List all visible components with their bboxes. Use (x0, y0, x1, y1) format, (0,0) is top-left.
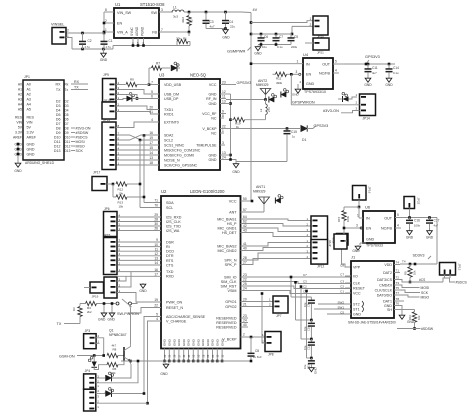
wire J1 gnd sd (400, 306, 402, 315)
svg-text:A4: A4 (27, 103, 31, 107)
svg-text:2: 2 (67, 28, 69, 32)
svg-text:RESERVED: RESERVED (216, 321, 237, 325)
svg-text:R8: R8 (113, 347, 117, 351)
svg-text:C1: C1 (109, 39, 113, 43)
svg-text:2: 2 (310, 23, 312, 27)
wire CS line (400, 278, 455, 282)
svg-text:RXD1: RXD1 (164, 112, 174, 116)
svg-text:D8: D8 (65, 126, 69, 130)
svg-text:MM9329: MM9329 (253, 190, 266, 194)
svg-text:GSM-ON: GSM-ON (59, 355, 75, 359)
svg-text:T3: T3 (396, 281, 400, 285)
svg-text:OUT: OUT (322, 63, 331, 67)
svg-text:71: 71 (154, 199, 158, 203)
svg-text:MIC_GND1: MIC_GND1 (217, 226, 236, 230)
connector JP17 (92, 171, 107, 191)
svg-text:I2S_CLK: I2S_CLK (166, 220, 181, 224)
svg-text:D4: D4 (56, 109, 61, 113)
svg-text:GND: GND (406, 236, 414, 240)
svg-text:23: 23 (222, 81, 226, 85)
regulator U4 TPS76933 (303, 52, 333, 94)
svg-text:3.3V: 3.3V (27, 131, 35, 135)
svg-text:MOSI: MOSI (76, 140, 85, 144)
resistor R11 490k (273, 72, 299, 85)
svg-text:D9: D9 (65, 131, 69, 135)
svg-text:TXD: TXD (166, 270, 174, 274)
resistor R19 (231, 118, 266, 130)
svg-text:#SDSW: #SDSW (421, 327, 434, 331)
svg-text:Tx: Tx (65, 88, 69, 92)
resistor R7 gps led (149, 61, 170, 84)
svg-text:RESERVED: RESERVED (216, 325, 237, 329)
capacitor C4 22u (222, 12, 235, 29)
ground below C6 (254, 46, 262, 56)
svg-text:GND: GND (168, 338, 172, 346)
svg-text:L2: L2 (259, 108, 263, 112)
svg-text:PGND: PGND (141, 26, 145, 36)
switch SW-PWRON (116, 299, 139, 316)
svg-text:NPNBC847: NPNBC847 (109, 333, 127, 337)
diode D10 gps ant (269, 94, 277, 103)
wire RF_IN to antenna (226, 98, 267, 101)
node VDD_USB junction (148, 83, 151, 86)
svg-text:JP6: JP6 (104, 207, 110, 211)
connector JP8 (265, 332, 281, 357)
wire RESET_N (128, 308, 161, 314)
node #SDCS (456, 281, 468, 285)
svg-text:ST1: ST1 (353, 307, 360, 311)
svg-text:12: 12 (222, 90, 226, 94)
svg-text:C8: C8 (340, 263, 344, 267)
svg-text:3: 3 (222, 141, 224, 145)
svg-text:TPS76933/10: TPS76933/10 (304, 90, 326, 94)
svg-text:GND: GND (364, 83, 372, 87)
connector JP18 sd (328, 234, 347, 249)
wire U3 gnd rail (226, 94, 236, 163)
svg-text:24: 24 (222, 156, 226, 160)
JP1 right net labels (65, 80, 91, 153)
svg-text:RXD: RXD (166, 275, 174, 279)
svg-text:8: 8 (222, 114, 224, 118)
svg-text:JP22: JP22 (417, 198, 421, 205)
svg-text:DAT2: DAT2 (383, 271, 392, 275)
wire JP19 to VPP (342, 245, 352, 267)
connector JP5 (104, 277, 121, 298)
svg-text:GND: GND (314, 367, 318, 375)
svg-text:JP10: JP10 (104, 99, 111, 103)
gps module U3 NEO-5Q (159, 73, 220, 171)
svg-text:GND: GND (216, 338, 220, 346)
svg-text:RESET_N: RESET_N (166, 306, 183, 310)
svg-text:MISO/CFG_COM1/NC: MISO/CFG_COM1/NC (164, 148, 201, 152)
wire JP8 pin2 riser (261, 292, 265, 343)
wire to JP20 (251, 21, 313, 36)
svg-text:D5: D5 (65, 113, 69, 117)
ground U6 (352, 243, 366, 253)
svg-text:MOSI: MOSI (421, 286, 430, 290)
svg-text:100n: 100n (414, 224, 421, 228)
svg-text:TX: TX (74, 85, 79, 89)
svg-text:MISO: MISO (421, 296, 430, 300)
svg-text:GPS3V3: GPS3V3 (237, 81, 252, 85)
svg-text:JP13: JP13 (458, 264, 462, 271)
svg-text:V_BCKP: V_BCKP (202, 127, 217, 131)
wire JP4 others (96, 360, 148, 404)
svg-text:VIN_A: VIN_A (117, 31, 128, 35)
svg-text:4u7: 4u7 (434, 224, 439, 228)
svg-text:I2S_TXD: I2S_TXD (166, 224, 181, 228)
regulator U6 TPS76933 (363, 205, 395, 248)
svg-text:D4: D4 (65, 108, 69, 112)
svg-text:D7: D7 (65, 122, 69, 126)
svg-text:13: 13 (222, 100, 226, 104)
svg-text:#SDCS: #SDCS (456, 281, 468, 285)
svg-text:I/O: I/O (353, 274, 358, 278)
svg-text:SCL2: SCL2 (164, 138, 173, 142)
wire cap bus bottom (258, 43, 291, 46)
svg-text:VIN_SW: VIN_SW (117, 11, 132, 15)
svg-text:0.1u: 0.1u (277, 45, 283, 49)
svg-text:5V: 5V (27, 126, 32, 130)
U3 left pins (149, 81, 200, 168)
ground below C11 (364, 77, 372, 87)
svg-text:U6: U6 (365, 205, 371, 210)
inductor L1 3u3 (159, 6, 241, 19)
node #3V3-ON gps (323, 109, 360, 113)
U3 right pins (196, 81, 232, 162)
ground U3 (232, 163, 240, 175)
antenna ANT1 MM9329 (253, 185, 270, 212)
svg-text:JP9: JP9 (103, 73, 109, 77)
node 4V (241, 8, 258, 13)
svg-text:1: 1 (222, 129, 224, 133)
ground below C17 (426, 230, 434, 240)
wire U3 VCC to GPS3V3 (232, 81, 251, 85)
connector JP19 vertical (332, 234, 349, 246)
svg-text:A3: A3 (18, 97, 22, 101)
svg-text:VINSEL: VINSEL (51, 23, 65, 27)
svg-text:C7: C7 (340, 272, 344, 276)
svg-text:D12: D12 (54, 145, 61, 149)
svg-text:RESERVED: RESERVED (216, 316, 237, 320)
svg-text:2k2: 2k2 (87, 310, 92, 314)
svg-text:9: 9 (222, 110, 224, 114)
svg-text:TX: TX (57, 322, 62, 326)
svg-text:GND: GND (206, 338, 210, 346)
svg-text:C1: C1 (340, 289, 344, 293)
svg-text:GND: GND (27, 143, 35, 147)
wire FB net (177, 31, 190, 36)
svg-text:CTS: CTS (166, 263, 174, 267)
svg-text:SIM_IO: SIM_IO (224, 275, 237, 279)
svg-text:T4: T4 (396, 261, 400, 265)
svg-text:GND: GND (98, 317, 106, 321)
svg-text:D2: D2 (65, 99, 69, 103)
svg-text:SCS1_NINC: SCS1_NINC (164, 143, 185, 147)
svg-text:2: 2 (105, 19, 107, 23)
svg-text:TIMEPULSE: TIMEPULSE (196, 143, 217, 147)
U2 reserved stubs (241, 318, 249, 327)
svg-text:D13: D13 (65, 149, 71, 153)
wire V_BCKP gps (232, 127, 300, 130)
svg-text:D13: D13 (54, 149, 61, 153)
resistor R9 sd pullup (404, 264, 417, 283)
svg-text:JP16: JP16 (368, 187, 372, 194)
capacitor C14 0.1u (386, 64, 400, 77)
svg-text:GND: GND (163, 338, 167, 346)
wire JP10 to uart (116, 106, 159, 114)
svg-text:490k: 490k (276, 81, 283, 85)
svg-text:7: 7 (161, 28, 163, 32)
svg-text:22u: 22u (230, 25, 235, 29)
svg-text:SH: SH (387, 308, 392, 312)
svg-text:GND: GND (292, 93, 300, 97)
svg-text:4.7u: 4.7u (85, 45, 91, 49)
svg-text:EN: EN (366, 227, 371, 231)
connector JP21 (305, 38, 329, 54)
svg-text:8: 8 (105, 8, 107, 12)
inductor L2 27n (259, 100, 271, 120)
svg-text:5: 5 (335, 60, 337, 64)
LED D5 usb (127, 93, 135, 102)
resistor R2 44k2 (181, 12, 194, 32)
svg-text:IN: IN (366, 217, 370, 221)
resistor R15 100k (337, 207, 359, 228)
wire DAT1 (400, 300, 404, 302)
svg-text:JP15: JP15 (103, 234, 110, 238)
wire ADC V_CHARGE (144, 317, 161, 405)
svg-text:DAT0/DO: DAT0/DO (377, 293, 393, 297)
node GPS3V3 top (365, 55, 380, 66)
svg-text:C2: C2 (88, 39, 92, 43)
svg-text:0.1u: 0.1u (393, 71, 399, 75)
svg-text:SIM_RST: SIM_RST (221, 284, 238, 288)
svg-text:GND: GND (172, 338, 176, 346)
svg-text:HS_P: HS_P (227, 222, 237, 226)
svg-text:C12: C12 (306, 345, 310, 350)
svg-text:NC/FB: NC/FB (319, 72, 331, 76)
svg-text:3: 3 (356, 224, 358, 228)
node GSM-ON (59, 354, 105, 358)
LED D5 gsm status (88, 354, 97, 367)
svg-text:D9: D9 (56, 131, 61, 135)
svg-text:JP12: JP12 (317, 265, 324, 269)
svg-text:RI: RI (166, 245, 170, 249)
svg-text:MIC_BIAS1: MIC_BIAS1 (217, 217, 236, 221)
svg-text:CLK/SCLK: CLK/SCLK (375, 288, 393, 292)
svg-text:AREF: AREF (13, 135, 22, 139)
svg-text:RES: RES (27, 116, 35, 120)
svg-text:V_BCKP: V_BCKP (222, 337, 237, 341)
wire SCK (400, 290, 429, 295)
LED D4 gps power (338, 92, 357, 102)
svg-text:SW1: SW1 (337, 305, 344, 309)
wire AGND bus (72, 44, 190, 50)
svg-text:D3: D3 (56, 104, 61, 108)
svg-text:10u: 10u (262, 45, 267, 49)
svg-text:JP11: JP11 (103, 118, 110, 122)
connector JP4 (84, 369, 100, 411)
svg-text:DCD: DCD (166, 250, 174, 254)
wire U3 pin stubs left i2c bundle (116, 135, 159, 165)
svg-text:T8: T8 (396, 297, 400, 301)
svg-text:VCC_RF: VCC_RF (202, 112, 217, 116)
wire U2 VCC to rail (241, 200, 254, 203)
wire sim bundle (241, 277, 352, 294)
svg-text:SW2: SW2 (337, 300, 344, 304)
svg-text:D3: D3 (65, 104, 69, 108)
svg-text:D1: D1 (302, 138, 306, 142)
svg-text:SCK/CFG_GPSSNC: SCK/CFG_GPSSNC (164, 163, 198, 167)
svg-text:JP3: JP3 (85, 329, 91, 333)
svg-text:GND: GND (426, 236, 434, 240)
svg-text:ST1510-SO8: ST1510-SO8 (140, 2, 165, 7)
svg-text:SW: SW (151, 11, 157, 15)
svg-text:4u7: 4u7 (210, 25, 215, 29)
wire cap bus top (251, 33, 292, 36)
svg-text:GND: GND (27, 148, 35, 152)
svg-text:5V: 5V (18, 125, 23, 129)
wire GPS3V3 out (345, 63, 395, 66)
svg-text:4.7u: 4.7u (106, 45, 112, 49)
connector JP19 small (84, 282, 104, 299)
capacitor C8 1u (248, 337, 262, 362)
svg-text:3u3: 3u3 (173, 15, 178, 19)
svg-text:GND: GND (108, 317, 116, 321)
svg-text:1u: 1u (292, 135, 296, 139)
U2 bottom gnd pins (121, 337, 251, 362)
svg-text:D8: D8 (56, 127, 61, 131)
svg-text:70: 70 (154, 204, 158, 208)
svg-text:GND: GND (232, 170, 240, 174)
svg-text:SW-PWRON: SW-PWRON (117, 312, 139, 316)
svg-text:C5: C5 (340, 310, 344, 314)
svg-text:C3: C3 (340, 279, 344, 283)
svg-text:U3: U3 (159, 73, 165, 78)
svg-text:GND: GND (201, 338, 205, 346)
connector JP22 (404, 197, 421, 218)
wire sda scl verticals (139, 134, 161, 207)
svg-text:27n: 27n (267, 107, 271, 112)
svg-text:CMD/DI: CMD/DI (379, 283, 392, 287)
svg-text:NC/FB: NC/FB (381, 227, 393, 231)
svg-text:RX: RX (56, 83, 62, 87)
LED D6 (96, 364, 131, 381)
svg-text:U1: U1 (115, 2, 121, 7)
wire VDD sd3v3 (400, 260, 437, 266)
svg-text:D11: D11 (54, 140, 60, 144)
wire VIN net (66, 12, 105, 34)
svg-text:GND: GND (27, 153, 35, 157)
svg-text:C8: C8 (255, 349, 259, 353)
capacitor C10 10u (303, 320, 315, 340)
svg-text:AREF: AREF (27, 136, 37, 140)
capacitor C7 0.1u (273, 34, 284, 49)
svg-text:GND: GND (14, 169, 22, 173)
svg-text:RESET: RESET (353, 286, 366, 290)
JP1 left net labels (13, 82, 23, 156)
ground U4 (292, 80, 302, 97)
svg-text:T7: T7 (396, 291, 400, 295)
svg-text:C14: C14 (393, 66, 399, 70)
svg-text:T6: T6 (396, 302, 400, 306)
svg-text:GPSPWRON: GPSPWRON (292, 101, 315, 105)
capacitor C9 10u (303, 297, 315, 321)
resistor R6 22k (94, 361, 124, 375)
capacitor C5 220u (288, 34, 299, 49)
capacitor C16 100n (406, 216, 421, 229)
svg-text:D2: D2 (56, 100, 61, 104)
svg-text:SCK: SCK (76, 149, 84, 153)
test point D9 gsm ant (275, 195, 283, 204)
svg-text:D7: D7 (56, 122, 61, 126)
node GPS3V3 after D1 (313, 124, 328, 129)
svg-text:RX: RX (74, 80, 80, 84)
svg-text:C4: C4 (229, 20, 233, 24)
svg-text:44k2: 44k2 (181, 16, 185, 23)
svg-text:VDD: VDD (384, 263, 392, 267)
resistor R1 20k (176, 37, 190, 46)
svg-text:ST2: ST2 (353, 302, 360, 306)
svg-text:GND: GND (352, 249, 360, 253)
capacitor C1 4u7 (101, 33, 113, 49)
U2 right pins (216, 197, 247, 329)
svg-text:GND: GND (385, 83, 393, 87)
svg-text:A4: A4 (18, 102, 22, 106)
resistor R4 tx (72, 304, 86, 324)
svg-text:JP14: JP14 (363, 116, 370, 120)
svg-text:C7: C7 (279, 35, 283, 39)
svg-text:GND: GND (407, 320, 415, 324)
wire JP3 pin2 (96, 338, 104, 356)
wire GSMPWR power rail (250, 13, 253, 202)
svg-text:USB_DM: USB_DM (164, 92, 179, 96)
wire MOSI (400, 285, 429, 290)
svg-text:JP21: JP21 (317, 50, 324, 54)
svg-text:ADC/CHARGE_SENSE: ADC/CHARGE_SENSE (166, 315, 206, 319)
svg-text:A3: A3 (27, 98, 31, 102)
svg-text:#SDCS: #SDCS (76, 135, 89, 139)
wire MISO (400, 295, 430, 300)
svg-text:A0: A0 (27, 83, 31, 87)
svg-text:MIC_GND2: MIC_GND2 (217, 249, 236, 253)
svg-text:220u: 220u (291, 45, 298, 49)
svg-text:R9: R9 (130, 78, 134, 82)
svg-text:OUT: OUT (384, 217, 393, 221)
J1 right pin stubs (394, 261, 400, 310)
svg-text:1: 1 (357, 214, 359, 218)
svg-text:RF_IN: RF_IN (206, 97, 217, 101)
svg-text:U4: U4 (303, 52, 309, 57)
svg-text:VSIM: VSIM (227, 289, 236, 293)
svg-text:IN: IN (306, 63, 310, 67)
svg-text:DAT1: DAT1 (383, 299, 392, 303)
ground JP1 (14, 143, 22, 173)
svg-text:C9: C9 (306, 303, 310, 307)
wire #SDSW (397, 327, 434, 331)
connector JP12 (306, 216, 327, 269)
svg-text:1: 1 (297, 59, 299, 63)
svg-text:GPS3V3: GPS3V3 (365, 55, 380, 59)
svg-text:GND: GND (222, 36, 230, 40)
svg-text:L1: L1 (173, 6, 177, 10)
svg-text:VCC: VCC (353, 291, 361, 295)
svg-text:3: 3 (296, 70, 298, 74)
svg-text:D10: D10 (65, 135, 71, 139)
connector JP13 (440, 263, 462, 276)
svg-text:TPS76933: TPS76933 (366, 244, 383, 248)
svg-text:GND: GND (306, 82, 315, 86)
